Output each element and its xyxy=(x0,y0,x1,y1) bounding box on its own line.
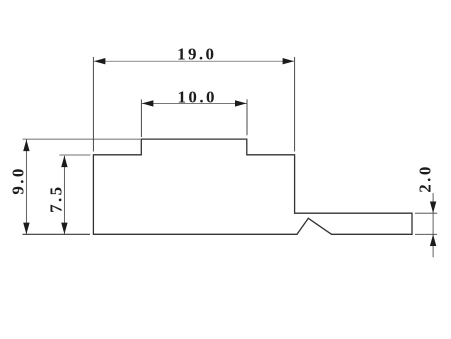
dim 9.0 arrow top xyxy=(23,140,29,152)
dim 7.5 extension line top xyxy=(59,154,90,156)
dim 2.0 dimension line xyxy=(432,193,434,257)
dim 19.0 extension line right xyxy=(294,57,296,152)
dim 9.0 / 7.5 shared extension line bottom xyxy=(23,233,91,235)
dim 2.0 extension line top xyxy=(415,212,437,214)
dim 7.5 arrow top xyxy=(61,156,67,168)
dim 19.0 arrow right xyxy=(283,58,295,64)
dim 19.0 dimension line xyxy=(94,60,294,62)
dim 19.0 extension line left xyxy=(92,57,94,152)
part outline (profile cross-section) xyxy=(93,139,412,234)
dim 10.0 dimension line xyxy=(142,102,247,104)
svg-text:7.5: 7.5 xyxy=(47,184,66,212)
dim 9.0 dimension line xyxy=(25,140,27,234)
dim 9.0 arrow bottom xyxy=(23,223,29,235)
svg-text:19.0: 19.0 xyxy=(177,44,216,63)
dim 7.5 dimension line xyxy=(63,156,65,234)
svg-text:10.0: 10.0 xyxy=(178,88,217,107)
dim 10.0 extension line right xyxy=(246,99,248,135)
dim 2.0 extension line bottom xyxy=(415,233,437,235)
dim 19.0 arrow left xyxy=(94,58,106,64)
dim 10.0 arrow left xyxy=(142,100,154,106)
dim 7.5 arrow bottom xyxy=(61,223,67,235)
dim 9.0 extension line top xyxy=(23,138,141,140)
svg-text:2.0: 2.0 xyxy=(415,164,434,192)
svg-text:9.0: 9.0 xyxy=(9,166,28,194)
dim 2.0 arrow lower (pointing up) xyxy=(430,235,436,247)
dim 10.0 extension line left xyxy=(140,99,142,137)
dim 2.0 arrow upper (pointing down) xyxy=(430,202,436,214)
dim 10.0 arrow right xyxy=(235,100,247,106)
